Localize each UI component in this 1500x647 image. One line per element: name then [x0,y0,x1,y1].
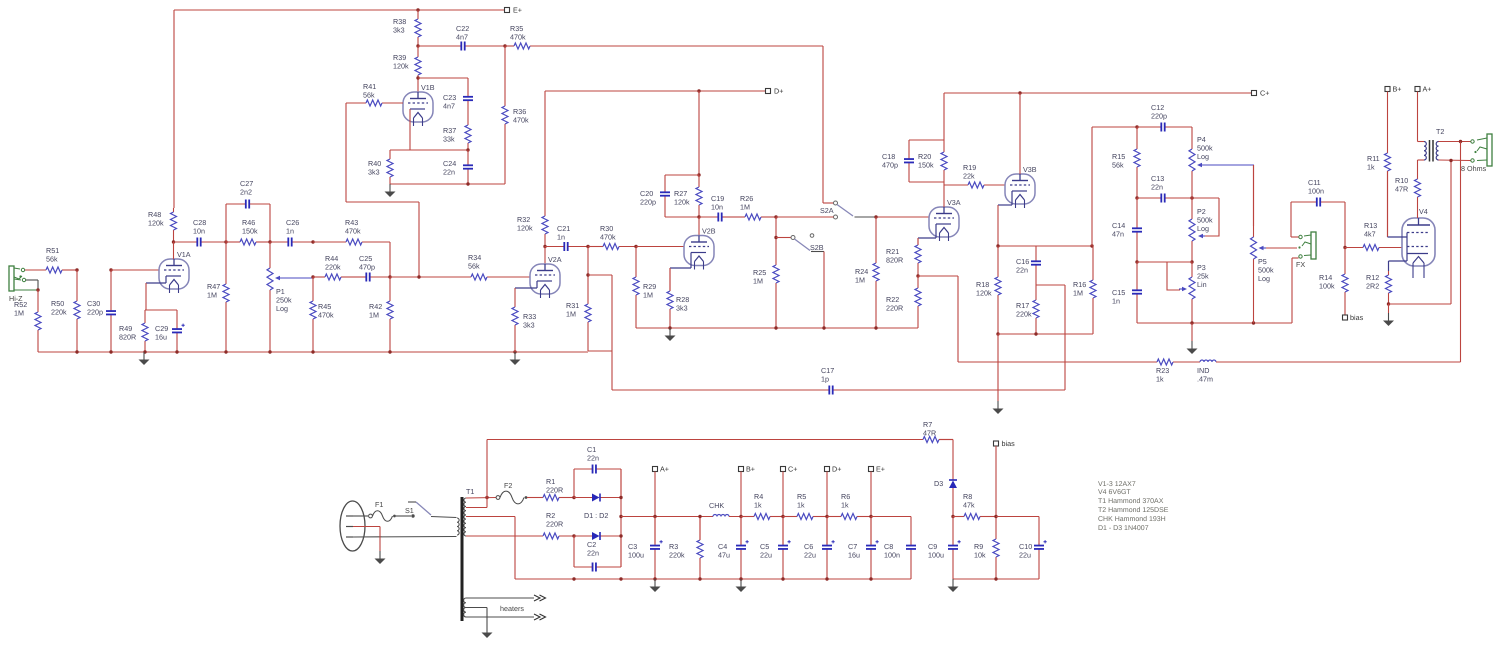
wire NFB from output [1460,142,1462,363]
capacitor C4 [736,517,749,580]
svg-text:100u: 100u [928,551,944,560]
junction [1190,260,1193,263]
wire V2B ground rail [636,327,918,329]
svg-text:1k: 1k [841,501,849,510]
resistor R22 [915,276,921,328]
svg-text:F1: F1 [375,500,383,509]
junction [513,350,516,353]
svg-text:100n: 100n [884,551,900,560]
wire T2 secondary cold [1389,161,1452,305]
svg-text:4k7: 4k7 [1364,230,1376,239]
potentiometer P1 [267,242,273,352]
svg-text:1M: 1M [740,203,750,212]
label R50 value [51,299,67,317]
svg-text:22k: 22k [963,172,975,181]
junction [668,326,671,329]
svg-text:3k3: 3k3 [523,321,535,330]
junction [698,515,701,518]
resistor R50 [74,270,80,352]
junction [1090,244,1093,247]
wire C12 to P4 [1191,127,1193,149]
junction [268,240,271,243]
resistor R30 [588,244,636,250]
resistor R45 [310,277,316,352]
resistor R42 [387,277,393,352]
wire V1A cathode [146,276,166,310]
label R47 value [207,282,220,300]
capacitor C9 [948,517,961,580]
junction [416,44,419,47]
label R45 value [318,302,334,320]
label R6 value [841,492,850,510]
junction [951,515,954,518]
resistor R46 [226,239,270,245]
capacitor C27 [226,200,270,209]
svg-text:47u: 47u [718,551,730,560]
junction [916,274,919,277]
svg-text:V1A: V1A [177,250,191,259]
tube V4 (6V6GT) [1402,218,1435,278]
svg-text:C+: C+ [1260,89,1269,98]
wire secondary CT [466,517,515,580]
label R38 value [393,17,406,35]
label C21 value [557,224,570,242]
terminal D+ [766,87,784,96]
resistor R20 [941,140,947,182]
label R39 value [393,53,409,71]
wire V3A plate node [943,182,945,207]
wire D+ rail [545,90,765,92]
wire V3A cathode [918,224,936,245]
wire bias AC rail [487,439,923,441]
label V2A [548,255,562,264]
svg-text:V1B: V1B [421,83,435,92]
label CHK label [709,501,724,510]
resistor R44 [313,274,357,280]
svg-text:S2B: S2B [810,243,824,252]
resistor R27 [696,175,702,217]
label R7 value [923,420,936,438]
junction [825,577,828,580]
notes text [1098,481,1169,532]
junction [869,577,872,580]
svg-text:Log: Log [276,304,288,313]
label V3B [1023,165,1037,174]
wire to C10 [996,517,1039,546]
resistor R31 [585,247,591,352]
wire B rail to CHK [621,516,713,518]
wire E+ column [870,472,872,546]
label R24 value [855,267,868,285]
junction [874,215,877,218]
capacitor C24 [463,150,473,184]
svg-text:4n7: 4n7 [443,102,455,111]
svg-text:V3A: V3A [947,198,961,207]
label C20 value [640,189,656,207]
junction [653,515,656,518]
resistor R48 [171,208,177,242]
junction [172,240,175,243]
resistor R26 [738,214,776,220]
label V1A [177,250,191,259]
junction [466,182,469,185]
wire C27 bridge [226,204,270,242]
wire V2B plate feed [698,91,700,175]
resistor R5 [783,514,827,520]
resistor R16 [1090,246,1096,334]
wire plate V1B to C23 [418,77,468,79]
junction [994,515,997,518]
wire C+ column [782,472,784,546]
wire V1B bottom rail [390,183,505,185]
label R9 value [974,542,986,560]
resistor R33 [512,307,518,352]
svg-text:FX: FX [1296,260,1305,269]
svg-text:220p: 220p [640,198,656,207]
svg-text:Log: Log [1197,224,1209,233]
svg-text:150k: 150k [242,227,258,236]
fuse F1 [369,511,396,522]
label R17 value [1016,301,1032,319]
svg-text:3k3: 3k3 [676,304,688,313]
switch S2A [834,201,854,219]
label C10 value [1019,542,1032,560]
svg-text:470p: 470p [359,263,375,272]
label D1 D2 [584,511,608,520]
svg-text:470k: 470k [510,33,526,42]
wire C2 box [574,536,621,567]
resistor R39 [415,46,421,92]
svg-text:220k: 220k [51,308,67,317]
resistor R38 [415,10,421,46]
svg-text:1M: 1M [14,309,24,318]
resistor R47 [223,242,229,352]
svg-text:1k: 1k [754,501,762,510]
label R43 value [345,218,361,236]
svg-text:Log: Log [1197,152,1209,161]
junction [869,515,872,518]
svg-text:120k: 120k [517,224,533,233]
wire C18/R20 feed [943,93,945,140]
label C6 value [804,542,816,560]
label R1 value [546,477,563,495]
svg-text:120k: 120k [393,62,409,71]
wire FX return to rail [1292,258,1299,323]
label C15 value [1112,288,1125,306]
svg-text:3k3: 3k3 [368,168,380,177]
junction [175,350,178,353]
junction [1135,196,1138,199]
fuse F2 [496,491,527,504]
junction [774,215,777,218]
junction [388,275,391,278]
label C4 value [718,542,730,560]
svg-text:100n: 100n [1308,187,1324,196]
label C17 value [821,366,834,384]
wire V1B grid feed [346,103,419,277]
capacitor C8 [906,517,916,580]
terminal B+ [739,465,756,474]
label R23 value [1156,366,1169,384]
junction [572,534,575,537]
wire heater CT [466,608,487,626]
svg-text:Lin: Lin [1197,280,1207,289]
junction [388,350,391,353]
label C14 value [1112,221,1125,239]
resistor R49 [142,310,148,352]
junction [634,245,637,248]
junction [311,240,314,243]
resistor R34 [390,274,530,280]
svg-text:16u: 16u [848,551,860,560]
tube V2A (triode) [530,264,560,298]
svg-text:T2 Hammond 125DSE: T2 Hammond 125DSE [1098,506,1169,514]
label R20 value [918,152,934,170]
capacitor C13 [1137,194,1219,203]
svg-text:V1-3 12AX7: V1-3 12AX7 [1098,481,1136,488]
junction [874,326,877,329]
junction [224,240,227,243]
junction [485,496,488,499]
svg-text:150k: 150k [918,161,934,170]
resistor R25 [773,217,779,328]
label label F1 [375,500,383,509]
svg-text:100k: 100k [1319,282,1335,291]
svg-text:1M: 1M [566,310,576,319]
capacitor C28 [174,238,227,247]
svg-text:1n: 1n [286,227,294,236]
label C22 value [456,24,469,42]
svg-text:heaters: heaters [500,604,524,613]
svg-text:22n: 22n [587,454,599,463]
wire C18/R20 bottom rail [909,181,944,183]
wire to S2B [776,237,791,239]
resistor R1 [527,495,574,501]
resistor R37 [465,113,471,150]
transformer T2 [1424,140,1439,162]
switch S1 [408,502,431,518]
junction [586,245,589,248]
label label Hi-Z [9,294,23,303]
svg-text:22n: 22n [443,168,455,177]
input jack Hi-Z [9,266,38,291]
svg-text:V4: V4 [1419,207,1428,216]
label R2 value [546,511,563,529]
label label S2B [810,243,824,252]
junction [311,275,314,278]
resistor R6 [827,514,871,520]
svg-text:D1 - D3 1N4007: D1 - D3 1N4007 [1098,525,1149,532]
wire A+ to T2 [1418,92,1425,142]
wire C1 box [574,469,621,498]
label R19 value [963,163,976,181]
junction [75,268,78,271]
svg-text:47R: 47R [923,429,936,438]
svg-text:220R: 220R [546,486,563,495]
wire R11 to screen grid [1388,171,1408,237]
wire R43 down [389,242,391,277]
wire jack ring to node [26,280,38,290]
wire V1B cathode [409,109,411,150]
resistor R36 [502,46,508,184]
label R21 value [886,247,903,265]
resistor R35 [505,43,823,49]
svg-text:D+: D+ [832,465,841,474]
resistor R15 [1134,127,1140,198]
junction [697,215,700,218]
svg-text:22u: 22u [1019,551,1031,560]
wire V4 cathode [1389,261,1408,271]
svg-text:22u: 22u [760,551,772,560]
svg-text:220R: 220R [546,520,563,529]
junction [1387,302,1390,305]
capacitor C14 [1132,198,1142,262]
junction [994,577,997,580]
resistor R51 [25,267,77,273]
wire P5 wiper to FX [1266,247,1297,249]
svg-text:22n: 22n [1151,183,1163,192]
diode D1 [574,494,621,502]
svg-text:2n2: 2n2 [240,188,252,197]
resistor R13 [1345,245,1402,251]
svg-text:D+: D+ [774,87,783,96]
label R26 value [740,194,753,212]
svg-text:1M: 1M [1073,289,1083,298]
wire to V2B grid [636,246,684,248]
svg-text:V4 6V6GT: V4 6V6GT [1098,489,1131,496]
wire V2A plate lead [544,247,546,265]
svg-text:1k: 1k [797,501,805,510]
mains plug [340,501,365,551]
label label 8 Ohms [1461,164,1487,173]
label V2B [702,227,716,236]
label R52 value [14,300,27,318]
svg-text:16u: 16u [155,333,167,342]
capacitor C26 [270,238,313,247]
wire C+ rail [944,92,1251,94]
label C7 value [848,542,860,560]
wire R26 to S2A [776,216,834,218]
svg-text:2R2: 2R2 [1366,282,1379,291]
label R30 value [600,224,616,242]
wire E+ rail [174,10,505,208]
junction [311,350,314,353]
terminal B+ [1385,85,1402,94]
ground [993,401,1004,414]
wire heater bottom [466,616,534,618]
switch S2B [791,234,814,251]
label C8 value [884,542,900,560]
label C9 value [928,542,944,560]
svg-text:47R: 47R [1395,185,1408,194]
svg-text:1M: 1M [369,311,379,320]
svg-text:T2: T2 [1436,127,1444,136]
svg-text:T1 Hammond 370AX: T1 Hammond 370AX [1098,497,1164,505]
wire CHK to B+ [729,516,754,518]
label R12 value [1366,273,1379,291]
junction [572,496,575,499]
ground [510,352,521,365]
wire plug neutral [353,536,457,539]
capacitor C20 [660,175,670,217]
label C19 value [711,194,724,212]
resistor R7 [923,437,953,443]
wire V2B cathode [670,253,691,292]
label R33 value [523,312,536,330]
svg-text:D3: D3 [934,479,943,488]
junction [996,332,999,335]
label R44 value [325,254,341,272]
terminal C+ [1252,89,1270,98]
capacitor C16 [1031,246,1041,285]
resistor R24 [873,217,879,328]
ground [665,328,676,341]
wire cathode node rail [145,309,177,311]
inductor IND [1200,360,1461,362]
label R27 value [674,189,690,207]
label V1B [421,83,435,92]
svg-text:220k: 220k [1016,310,1032,319]
wire cathode rail V1B [390,149,468,151]
svg-text:220k: 220k [669,551,685,560]
jack FX [1298,232,1316,259]
svg-text:B+: B+ [746,465,755,474]
diode D3 [949,479,957,517]
label label FX [1296,260,1305,269]
resistor R40 [387,150,393,184]
capacitor C10 [1034,540,1047,579]
wire F1 to S1 [396,515,411,517]
wire V3B plate lead [1019,93,1021,174]
heater arrow [534,614,546,620]
capacitor C1 [574,465,621,474]
tube V2B (triode) [684,236,714,270]
label R10 value [1395,176,1408,194]
diode D2 [574,532,621,540]
capacitor C23 [463,78,473,113]
potentiometer P4 [1189,149,1195,198]
wire T2 secondary hot [1439,141,1471,143]
resistor R14 [1342,248,1348,316]
svg-text:56k: 56k [468,262,480,271]
label R4 value [754,492,763,510]
wire bottom rail V1 [38,351,588,353]
svg-text:4n7: 4n7 [456,33,468,42]
resistor R9 [993,538,999,579]
capacitor C17 [612,386,1065,395]
svg-text:V2B: V2B [702,227,716,236]
label R36 value [513,107,529,125]
junction [109,350,112,353]
capacitor C25 [357,273,390,282]
wire C14/P3 rail [1137,261,1192,263]
junction [1135,125,1138,128]
label C25 value [359,254,375,272]
junction [774,236,777,239]
svg-text:22n: 22n [587,549,599,558]
svg-text:1n: 1n [1112,297,1120,306]
svg-text:220p: 220p [87,308,103,317]
svg-text:F2: F2 [504,481,512,490]
svg-text:1n: 1n [557,233,565,242]
wire top rail riser [466,440,487,508]
label C5 value [760,542,772,560]
ground [650,579,661,592]
terminal C+ [781,465,798,474]
wire B+ to R11 [1387,92,1389,151]
label C3 value [628,542,644,560]
svg-text:.47m: .47m [1197,375,1213,384]
